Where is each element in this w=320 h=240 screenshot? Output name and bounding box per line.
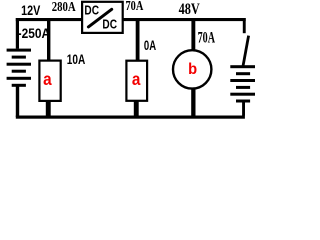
svg-text:12V: 12V (21, 3, 41, 19)
wire battery B2 bottom stub (242, 103, 245, 116)
source b circle (173, 50, 211, 88)
switch S1 lever (243, 36, 249, 66)
svg-text:70A: 70A (198, 28, 216, 46)
wire battery B1 top stub (16, 18, 19, 49)
wire source b top stub (191, 18, 195, 51)
battery B1 (12V left) (7, 49, 31, 87)
svg-text:10A: 10A (67, 51, 86, 67)
svg-text:48V: 48V (179, 1, 201, 19)
wire load a1 top stub (47, 18, 50, 62)
load a2 box (126, 61, 147, 101)
svg-text:DC: DC (102, 16, 117, 32)
svg-text:280A: 280A (52, 0, 76, 15)
wire battery B1 bottom stub (16, 86, 19, 117)
wire bottom bus (16, 116, 245, 119)
svg-text:70A: 70A (125, 0, 143, 13)
battery B2 (48V right) (230, 65, 255, 102)
wire top bus (16, 18, 246, 21)
wire load a1 bottom stub (46, 101, 51, 117)
wire switch S1 top stub (243, 18, 246, 33)
svg-text:-250A: -250A (18, 25, 51, 41)
svg-text:a: a (43, 69, 52, 89)
load a1 box (39, 61, 60, 101)
wire source b bottom stub (191, 88, 195, 116)
svg-text:DC: DC (84, 2, 99, 18)
svg-text:a: a (132, 69, 141, 89)
wire load a2 top stub (136, 18, 140, 62)
dc-dc converter U1 box (82, 2, 123, 33)
svg-text:0A: 0A (144, 37, 156, 53)
wire load a2 bottom stub (134, 101, 139, 117)
dc-dc converter U1 diagonal (88, 9, 111, 27)
svg-text:b: b (188, 60, 197, 78)
